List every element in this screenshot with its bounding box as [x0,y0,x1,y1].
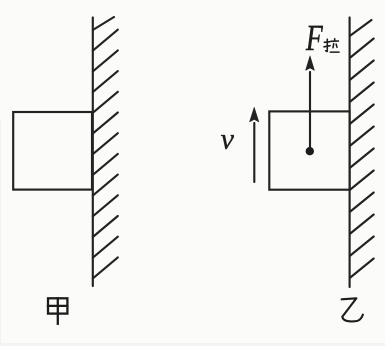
scan shadow bottom edge [0,343,385,346]
velocity line v [253,123,255,182]
label v [221,135,234,149]
scan streak left edge [0,120,1,346]
wall line right [349,18,351,288]
dot on block 乙 [306,147,314,155]
label F [306,26,323,50]
arrowhead v [250,107,259,122]
block 乙 [269,111,349,189]
block 甲 [13,112,92,190]
label 乙 (drawn strokes) [342,298,363,321]
wall hatching right [350,20,374,278]
force line F [309,72,311,151]
label 甲 (drawn strokes) [48,298,67,324]
label 拉 (subscript, drawn strokes) [324,39,339,53]
wall line left [92,18,94,287]
wall hatching left [93,17,118,278]
arrowhead F [306,56,315,71]
